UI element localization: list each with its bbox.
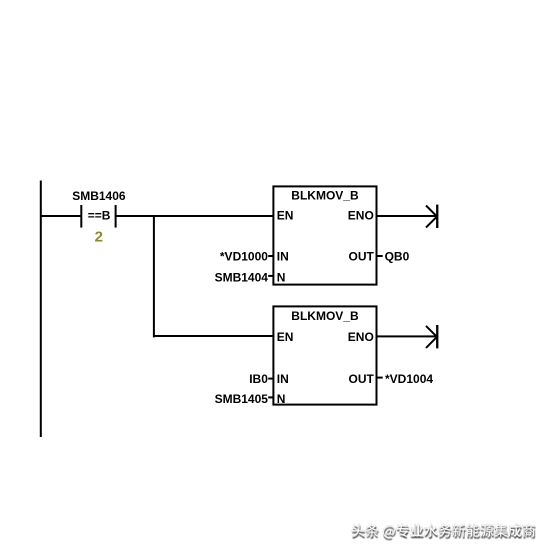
svg-text:IN: IN — [277, 372, 289, 386]
wire contact to U1 EN — [116, 215, 274, 217]
pin tick U1 OUT — [378, 255, 383, 257]
pin tick U2 OUT — [378, 377, 383, 379]
svg-text:EN: EN — [277, 330, 294, 344]
pin tick U2 IN — [268, 378, 273, 380]
pin tick U1 IN — [268, 255, 273, 257]
svg-text:SMB1404: SMB1404 — [215, 271, 269, 285]
wire branch to U2 EN — [153, 335, 274, 337]
svg-text:ENO: ENO — [348, 209, 374, 223]
rung continuation arrow 1 — [426, 205, 438, 228]
wire U2 ENO to arrow — [378, 335, 437, 337]
left power rail — [40, 181, 42, 438]
svg-text:*VD1000: *VD1000 — [220, 249, 268, 263]
svg-text:SMB1406: SMB1406 — [72, 189, 126, 203]
svg-text:N: N — [277, 271, 286, 285]
pin tick U1 N — [268, 275, 273, 277]
svg-text:QB0: QB0 — [385, 249, 410, 263]
wire rail to contact — [40, 215, 81, 217]
svg-text:BLKMOV_B: BLKMOV_B — [291, 309, 359, 323]
svg-text:BLKMOV_B: BLKMOV_B — [291, 189, 359, 203]
block U1 BLKMOV_B — [273, 186, 376, 284]
svg-text:SMB1405: SMB1405 — [215, 392, 269, 406]
svg-text:==B: ==B — [88, 209, 111, 223]
svg-text:OUT: OUT — [349, 372, 375, 386]
svg-text:ENO: ENO — [348, 330, 374, 344]
svg-text:OUT: OUT — [349, 249, 375, 263]
contact SMB1406 ==B (compare byte equal) — [72, 189, 126, 228]
watermark 头条 @专业水务新能源集成商 — [352, 524, 536, 540]
svg-text:EN: EN — [277, 209, 294, 223]
svg-text:N: N — [277, 392, 286, 406]
block U2 BLKMOV_B — [273, 306, 376, 406]
svg-text:IN: IN — [277, 249, 289, 263]
rung continuation arrow 2 — [426, 325, 438, 348]
svg-text:IB0: IB0 — [249, 372, 268, 386]
pin tick U2 N — [268, 396, 273, 398]
svg-text:*VD1004: *VD1004 — [385, 372, 433, 386]
wire U1 ENO to arrow — [378, 215, 437, 217]
svg-text:2: 2 — [95, 228, 103, 245]
junction branch vertical wire — [153, 215, 155, 337]
